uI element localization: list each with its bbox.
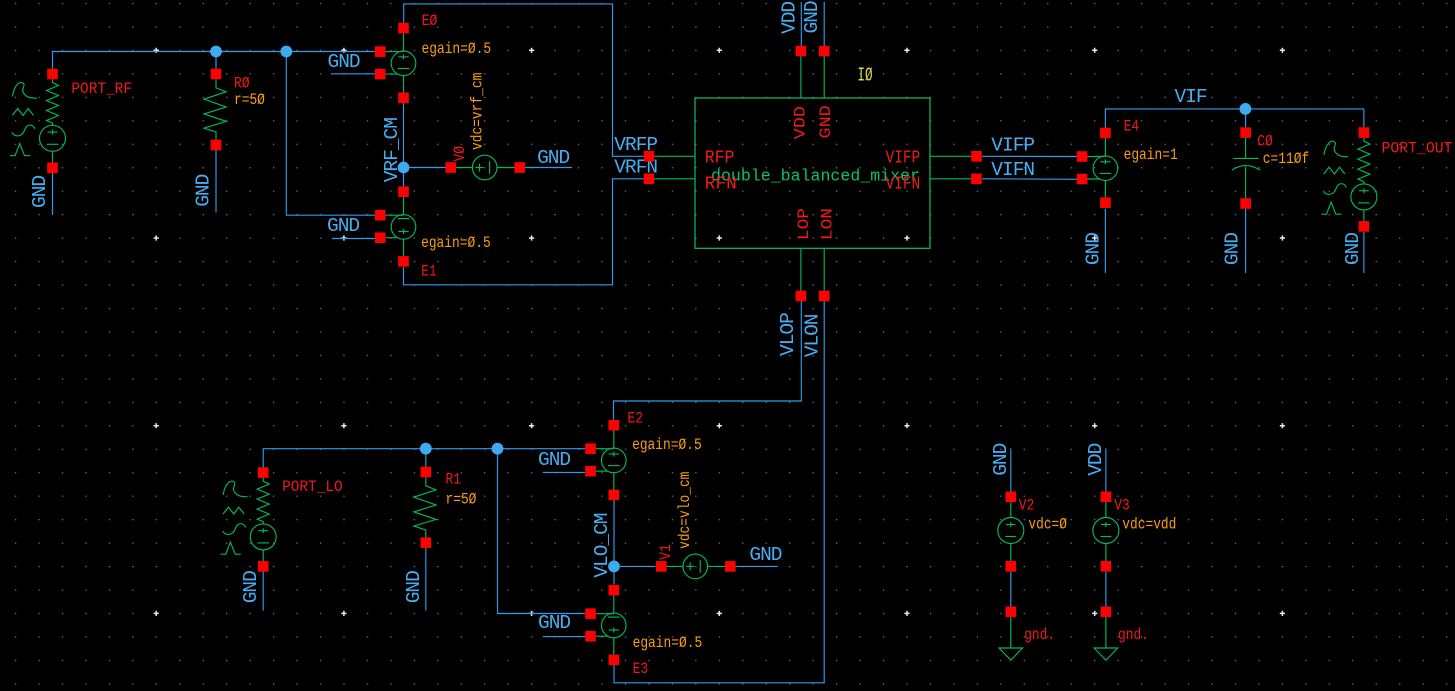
- svg-text:egain=1: egain=1: [1124, 146, 1178, 164]
- svg-text:vdc=vrf_cm: vdc=vrf_cm: [469, 73, 487, 150]
- svg-text:RFN: RFN: [705, 173, 737, 194]
- svg-text:GND: GND: [403, 571, 425, 603]
- svg-text:VDD: VDD: [1085, 443, 1107, 475]
- mixer I0 symbol double_balanced_mixer: [644, 46, 982, 302]
- dc source V2: [998, 492, 1024, 572]
- svg-text:VDD: VDD: [791, 106, 809, 139]
- svg-text:PORT_RF: PORT_RF: [71, 80, 132, 98]
- svg-text:egain=Ø.5: egain=Ø.5: [422, 40, 492, 58]
- svg-text:GND: GND: [193, 174, 215, 206]
- wire VIFP mixer to E4 in+: [982, 155, 1077, 157]
- svg-text:VIFN: VIFN: [991, 159, 1034, 181]
- svg-text:egain=Ø.5: egain=Ø.5: [632, 436, 702, 454]
- svg-text:EØ: EØ: [422, 12, 438, 30]
- svg-text:R1: R1: [446, 471, 462, 489]
- wire VRF_CM node E0 out- to E1 out+: [403, 103, 405, 187]
- svg-text:GND: GND: [990, 443, 1012, 475]
- wire GND stub at E1 in+: [332, 238, 380, 240]
- wire V1 minus GND stub: [735, 565, 778, 567]
- svg-text:egain=Ø.5: egain=Ø.5: [421, 234, 491, 252]
- svg-text:VIF: VIF: [1175, 86, 1207, 108]
- vcvs E4: [1077, 128, 1118, 208]
- vcvs E1: [375, 186, 416, 266]
- svg-text:VLOP: VLOP: [777, 313, 799, 356]
- svg-text:PORT_LO: PORT_LO: [282, 478, 343, 496]
- wire VRFN: E1 out- around bottom to mixer RFN: [404, 179, 645, 285]
- svg-text:GND: GND: [29, 176, 51, 208]
- wire V3 minus to gnd: [1105, 571, 1107, 607]
- wire PORT_OUT ground stub: [1363, 232, 1365, 273]
- svg-text:vdc=Ø: vdc=Ø: [1028, 515, 1067, 533]
- junction R1 tap: [420, 443, 432, 455]
- svg-text:GND: GND: [1342, 233, 1364, 265]
- svg-text:c=11Øf: c=11Øf: [1263, 150, 1309, 168]
- wire V2 GND net stub: [1010, 448, 1012, 492]
- wire R0 connection drop: [215, 52, 217, 75]
- wire R1 connection drop: [425, 449, 427, 471]
- svg-text:GND: GND: [538, 612, 570, 634]
- svg-text:GND: GND: [817, 105, 835, 138]
- wire VDD supply to mixer: [800, 2, 802, 46]
- svg-text:GND: GND: [538, 449, 570, 471]
- svg-text:RFP: RFP: [705, 148, 735, 169]
- vcvs E3: [585, 585, 626, 665]
- node VLO_CM junction: [608, 561, 620, 573]
- wire VLO_CM node E2 out- to E3 out+: [613, 500, 615, 585]
- wire GND stub at E0 in-: [331, 73, 380, 75]
- svg-text:gnd.: gnd.: [1024, 626, 1055, 644]
- port PORT_RF: [10, 69, 66, 173]
- svg-text:GND: GND: [749, 544, 781, 566]
- node VIF junction: [1240, 103, 1252, 115]
- wire R0 ground stub: [215, 150, 217, 213]
- svg-text:GND: GND: [1222, 233, 1244, 265]
- wire junction drop to E3 in-: [498, 449, 586, 614]
- wire C0 top drop: [1245, 109, 1247, 127]
- wire LO top net: PORT_LO to E2 in+: [263, 449, 585, 468]
- port PORT_OUT: [1321, 127, 1377, 231]
- svg-text:LOP: LOP: [795, 208, 813, 240]
- svg-text:IØ: IØ: [857, 64, 872, 86]
- wire C0 ground stub: [1245, 209, 1247, 273]
- wire PORT_OUT drop: [1363, 109, 1365, 127]
- svg-text:E1: E1: [421, 262, 437, 280]
- wire V3 VDD net stub: [1105, 448, 1107, 492]
- svg-text:GND: GND: [240, 571, 262, 603]
- svg-text:V3: V3: [1114, 497, 1130, 515]
- port PORT_LO: [221, 467, 277, 571]
- svg-text:LON: LON: [818, 208, 836, 240]
- svg-text:GND: GND: [327, 215, 359, 237]
- resistor R1: [414, 467, 436, 548]
- wire GND stub at E2 in-: [543, 471, 585, 473]
- junction E3 branch: [492, 443, 504, 455]
- svg-text:E3: E3: [633, 660, 649, 678]
- ground gnd symbol at V3: [1094, 607, 1118, 661]
- wire R1 ground stub: [425, 548, 427, 611]
- svg-text:VLO_CM: VLO_CM: [591, 513, 613, 578]
- svg-text:VRF_CM: VRF_CM: [381, 118, 403, 183]
- wire PORT_LO ground stub: [262, 570, 264, 611]
- svg-text:vdc=vdd: vdc=vdd: [1122, 515, 1176, 533]
- svg-text:VØ: VØ: [451, 146, 469, 162]
- wire VLON: mixer LON around right/bottom to E3 out-: [614, 301, 824, 683]
- wire VRF_CM to V0 plus: [404, 167, 446, 169]
- svg-text:egain=Ø.5: egain=Ø.5: [633, 634, 703, 652]
- svg-text:V2: V2: [1019, 497, 1035, 515]
- svg-text:GND: GND: [1082, 233, 1104, 265]
- wire V2 minus to gnd: [1010, 571, 1012, 607]
- wire E4 out- ground stub: [1104, 209, 1106, 273]
- resistor R0: [204, 69, 226, 151]
- dc source V3: [1093, 492, 1119, 572]
- wire GND stub at E3 in+: [543, 636, 585, 638]
- svg-text:r=5Ø: r=5Ø: [446, 491, 477, 509]
- wire VLO_CM to V1 plus: [614, 565, 656, 567]
- svg-text:GND: GND: [801, 1, 823, 33]
- wire VLOP: mixer LOP to E2 out+: [614, 301, 802, 420]
- svg-text:VDD: VDD: [779, 2, 801, 34]
- svg-text:VIFP: VIFP: [991, 134, 1034, 156]
- svg-text:GND: GND: [328, 51, 360, 73]
- dc source V0: [445, 155, 525, 180]
- svg-text:GND: GND: [537, 147, 569, 169]
- wire GND supply to mixer: [823, 2, 825, 46]
- svg-text:gnd.: gnd.: [1118, 626, 1149, 644]
- wire RF top net: PORT_RF to E0 in+: [53, 52, 381, 75]
- node VRF_CM junction: [398, 162, 410, 174]
- junction E1 branch: [280, 46, 292, 58]
- vcvs E2: [585, 420, 626, 500]
- svg-text:E2: E2: [628, 409, 644, 427]
- svg-text:vdc=vlo_cm: vdc=vlo_cm: [676, 472, 694, 549]
- vcvs E0: [375, 23, 416, 103]
- wire junction2 drop to E1 in-: [286, 52, 380, 216]
- wire VIFN mixer to E4 in-: [982, 178, 1077, 181]
- svg-text:E4: E4: [1124, 117, 1140, 135]
- dc source V1: [656, 554, 736, 579]
- svg-text:PORT_OUT: PORT_OUT: [1382, 139, 1453, 157]
- svg-text:V1: V1: [657, 544, 675, 560]
- wire VIF net: E4 out+ to C0 to PORT_OUT: [1105, 109, 1364, 128]
- svg-text:VIFP: VIFP: [886, 148, 921, 169]
- wire VRFP: E0 out+ around top to mixer RFP: [404, 4, 644, 156]
- capacitor C0: [1232, 127, 1260, 209]
- ground gnd symbol at V2: [999, 607, 1023, 661]
- svg-text:RØ: RØ: [234, 74, 250, 92]
- svg-text:CØ: CØ: [1257, 133, 1273, 151]
- wire PORT_RF ground stub: [52, 172, 54, 215]
- svg-text:r=5Ø: r=5Ø: [234, 91, 265, 109]
- junction R0 tap: [210, 46, 222, 58]
- wire V0 minus GND stub: [525, 167, 572, 169]
- svg-text:VLON: VLON: [802, 314, 824, 357]
- svg-text:VIFN: VIFN: [886, 173, 921, 194]
